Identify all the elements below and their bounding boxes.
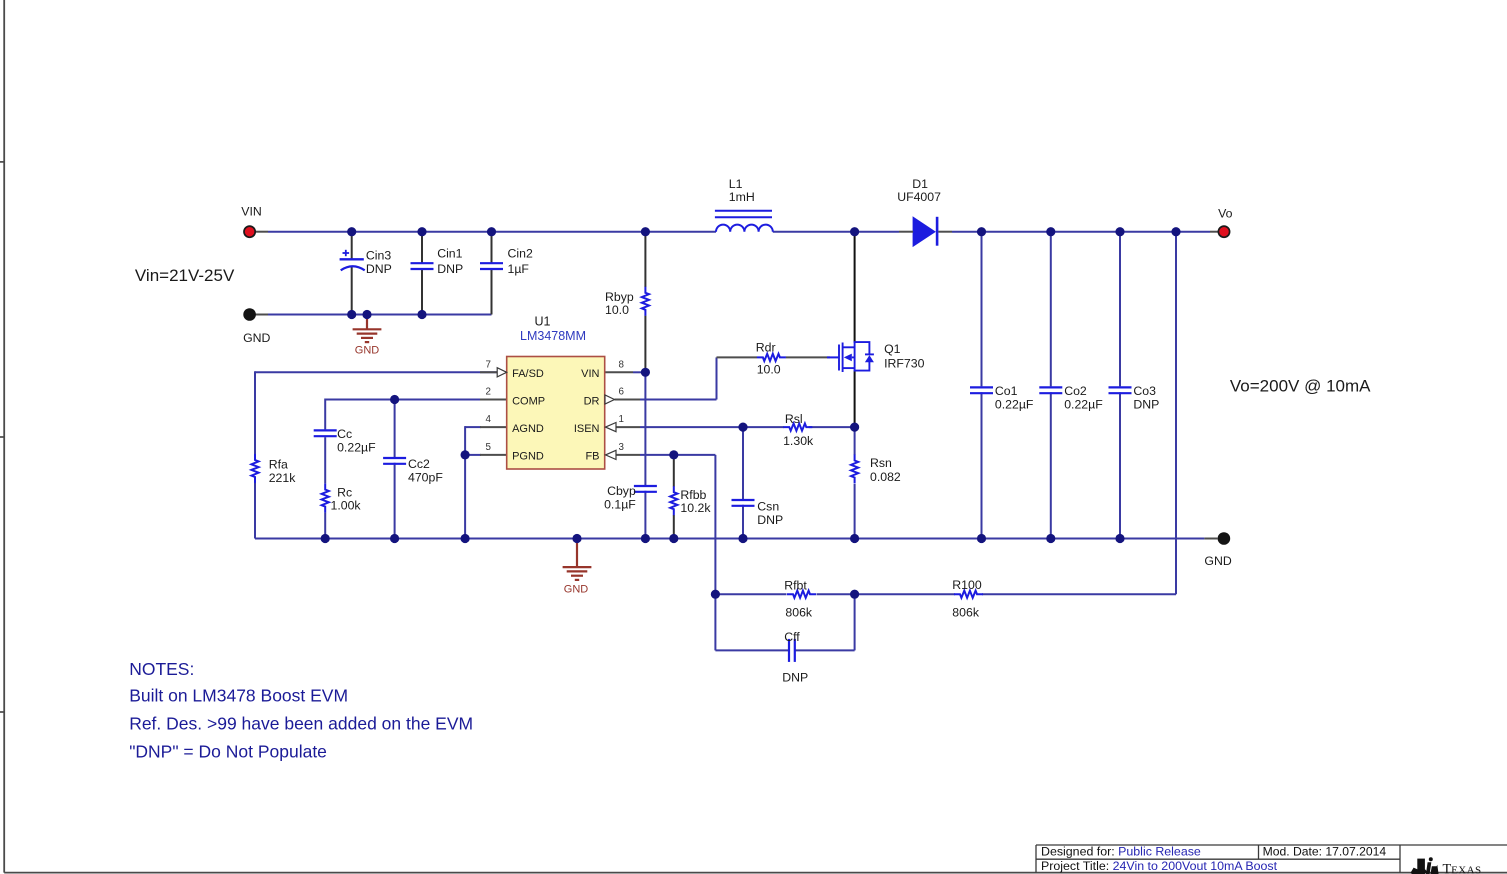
svg-text:1.30k: 1.30k (783, 434, 814, 448)
svg-text:FB: FB (585, 451, 599, 463)
svg-text:LM3478MM: LM3478MM (520, 329, 586, 343)
svg-text:6: 6 (618, 387, 624, 398)
svg-text:GND: GND (564, 584, 589, 596)
svg-text:Cbyp: Cbyp (607, 484, 636, 498)
svg-text:10.0: 10.0 (605, 303, 629, 317)
svg-text:GND: GND (1204, 554, 1231, 568)
svg-text:0.22µF: 0.22µF (995, 397, 1034, 411)
svg-text:4: 4 (485, 414, 491, 425)
svg-text:UF4007: UF4007 (897, 190, 941, 204)
svg-text:GND: GND (243, 331, 270, 345)
svg-text:IRF730: IRF730 (884, 357, 924, 371)
svg-text:Q1: Q1 (884, 342, 901, 356)
svg-text:1mH: 1mH (729, 190, 755, 204)
svg-text:DNP: DNP (782, 671, 808, 685)
svg-text:Cin2: Cin2 (508, 247, 533, 261)
svg-text:0.082: 0.082 (870, 470, 901, 484)
svg-text:Co1: Co1 (995, 384, 1018, 398)
svg-text:DNP: DNP (1133, 397, 1159, 411)
svg-text:U1: U1 (535, 315, 551, 329)
svg-text:Vin=21V-25V: Vin=21V-25V (135, 266, 235, 285)
svg-text:1.00k: 1.00k (331, 499, 362, 513)
svg-text:VIN: VIN (241, 204, 261, 218)
svg-text:3: 3 (618, 442, 624, 453)
svg-text:Rbyp: Rbyp (605, 290, 634, 304)
svg-text:806k: 806k (785, 606, 813, 620)
svg-text:Mod. Date: 17.07.2014: Mod. Date: 17.07.2014 (1263, 845, 1387, 859)
svg-text:Rfbb: Rfbb (680, 488, 706, 502)
svg-text:VIN: VIN (581, 368, 599, 380)
svg-text:DNP: DNP (437, 262, 463, 276)
svg-text:Rc: Rc (337, 485, 352, 499)
svg-text:Csn: Csn (757, 499, 779, 513)
svg-text:7: 7 (485, 359, 490, 370)
svg-text:Project Title: 24Vin to 200Vou: Project Title: 24Vin to 200Vout 10mA Boo… (1041, 859, 1278, 873)
svg-text:Rsl: Rsl (785, 412, 803, 426)
svg-text:Rfa: Rfa (269, 458, 288, 472)
svg-text:FA/SD: FA/SD (512, 368, 544, 380)
svg-text:DR: DR (584, 395, 600, 407)
svg-text:Ref. Des. >99 have been added: Ref. Des. >99 have been added on the EVM (129, 714, 473, 734)
svg-text:1µF: 1µF (508, 262, 530, 276)
svg-text:Co3: Co3 (1133, 384, 1156, 398)
svg-text:470pF: 470pF (408, 470, 443, 484)
svg-text:NOTES:: NOTES: (129, 659, 194, 679)
svg-text:"DNP" = Do Not Populate: "DNP" = Do Not Populate (129, 742, 327, 762)
svg-text:Cc: Cc (337, 427, 352, 441)
svg-text:0.1µF: 0.1µF (604, 498, 636, 512)
svg-text:DNP: DNP (366, 262, 392, 276)
svg-text:R100: R100 (952, 578, 982, 592)
svg-text:Cin3: Cin3 (366, 249, 391, 263)
svg-text:Designed for: Public Release: Designed for: Public Release (1041, 845, 1201, 859)
svg-text:10.0: 10.0 (757, 363, 781, 377)
svg-text:0.22µF: 0.22µF (337, 440, 376, 454)
svg-text:Built on LM3478 Boost EVM: Built on LM3478 Boost EVM (129, 685, 348, 705)
svg-text:Rfbt: Rfbt (784, 579, 807, 593)
svg-text:COMP: COMP (512, 395, 545, 407)
svg-text:221k: 221k (269, 471, 297, 485)
svg-text:D1: D1 (912, 177, 928, 191)
svg-text:GND: GND (355, 345, 380, 357)
svg-text:Cff: Cff (784, 630, 800, 644)
svg-text:PGND: PGND (512, 451, 544, 463)
svg-text:DNP: DNP (757, 513, 783, 527)
svg-text:L1: L1 (729, 177, 743, 191)
svg-text:10.2k: 10.2k (680, 501, 711, 515)
svg-text:0.22µF: 0.22µF (1064, 397, 1103, 411)
svg-text:5: 5 (485, 442, 491, 453)
svg-text:Cin1: Cin1 (437, 247, 462, 261)
svg-text:Rsn: Rsn (870, 456, 892, 470)
svg-text:Vo=200V @ 10mA: Vo=200V @ 10mA (1230, 376, 1371, 395)
svg-text:Rdr: Rdr (756, 341, 776, 355)
svg-text:Cc2: Cc2 (408, 457, 430, 471)
svg-text:8: 8 (618, 359, 624, 370)
svg-text:Co2: Co2 (1064, 384, 1087, 398)
svg-text:1: 1 (618, 414, 623, 425)
svg-text:ISEN: ISEN (574, 423, 600, 435)
svg-text:806k: 806k (952, 606, 980, 620)
svg-text:Vo: Vo (1218, 207, 1233, 221)
svg-text:2: 2 (485, 387, 490, 398)
svg-text:AGND: AGND (512, 423, 544, 435)
